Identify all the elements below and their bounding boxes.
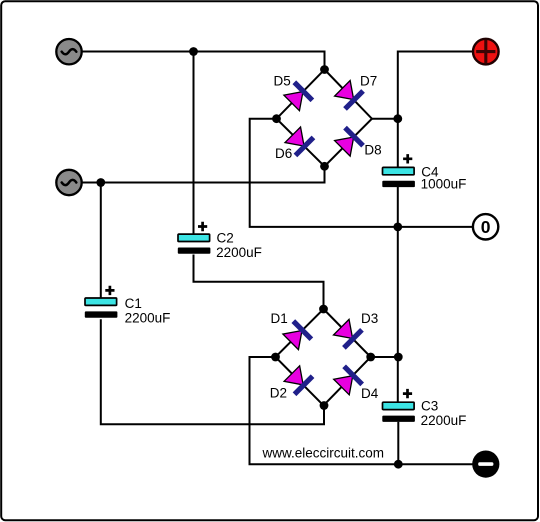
polarity plus sign C1 [105,286,114,295]
svg-text:1000uF: 1000uF [421,177,467,192]
wire C1 rail top [100,183,102,299]
diode D8 [333,126,365,158]
node junction right of bottom bridge [394,353,403,362]
polarity plus sign C3 [403,389,412,398]
svg-text:C2: C2 [217,231,234,246]
polarity plus sign C4 [403,154,412,163]
svg-text:2200uF: 2200uF [216,245,262,260]
wire AC2 to bottom vertex of top bridge [82,166,325,182]
svg-text:D4: D4 [361,386,379,401]
capacitor C3 [382,389,466,428]
diode D1 [282,319,314,351]
node junction right of top bridge [393,114,402,123]
wire C1 bottom to bottom bridge bottom vertex [101,319,324,424]
svg-text:2200uF: 2200uF [125,310,171,325]
wire C4 bottom to minus rail through junctions [397,187,399,402]
wire C2 bottom to bottom bridge top vertex [194,255,324,310]
wire top bridge diamond [277,70,398,167]
diode D4 [332,365,364,397]
svg-text:D2: D2 [270,386,287,401]
node junction minus rail [394,460,403,469]
node left vertex bottom bridge [271,353,280,362]
diode D3 [332,318,364,350]
svg-text:D8: D8 [364,142,381,157]
node right vertex bottom bridge [366,353,375,362]
AC source terminal 1 [56,39,81,64]
node junction AC1/C2 rail [189,47,198,56]
node bottom vertex top bridge [320,162,329,171]
svg-text:C1: C1 [125,296,142,311]
capacitor C1 [85,286,171,326]
capacitor C4 [382,154,466,191]
capacitor C2 [178,222,262,260]
svg-text:D5: D5 [274,73,291,88]
node junction 0 rail [393,223,402,232]
svg-text:www.eleccircuit.com: www.eleccircuit.com [262,446,385,461]
AC source terminal 2 [56,170,81,195]
wire plus terminal rail [398,52,473,168]
svg-text:0: 0 [481,217,491,237]
svg-text:2200uF: 2200uF [421,413,467,428]
wire C3 bottom to bottom rail [397,422,399,464]
zero output terminal [473,214,498,239]
svg-text:D3: D3 [361,311,378,326]
svg-text:D1: D1 [271,311,288,326]
diode D2 [283,365,315,397]
diode D5 [283,80,315,112]
wire bottom bridge diamond [276,309,399,406]
node left vertex top bridge [272,114,281,123]
wire AC1 to top bridge [82,52,325,70]
wire C2 rail top [193,52,195,235]
plus output terminal [473,39,499,65]
svg-text:D7: D7 [360,73,377,88]
node top vertex top bridge [320,65,329,74]
minus output terminal [472,451,499,478]
wire bottom bridge left vertex to minus terminal [250,357,473,464]
node junction AC2/C1 rail [96,178,105,187]
wire top bridge left vertex to 0 terminal [250,119,473,227]
diode D6 [284,126,316,158]
diode D7 [333,79,365,111]
polarity plus sign C2 [198,222,207,231]
node bottom vertex bottom bridge [320,401,329,410]
svg-text:D6: D6 [275,146,292,161]
svg-text:C3: C3 [421,399,438,414]
node top vertex bottom bridge [319,305,328,314]
